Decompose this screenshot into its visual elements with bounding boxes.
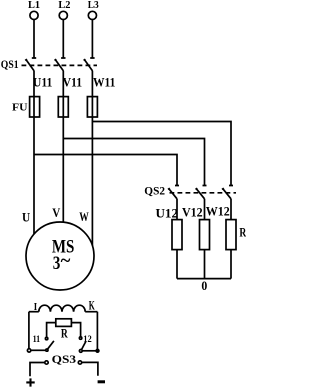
svg-text:R: R bbox=[61, 326, 69, 340]
svg-text:V: V bbox=[52, 206, 60, 220]
svg-text:QS1: QS1 bbox=[1, 58, 19, 71]
svg-text:QS2: QS2 bbox=[144, 186, 165, 198]
svg-text:I: I bbox=[34, 302, 37, 313]
svg-text:L3: L3 bbox=[88, 0, 99, 11]
svg-text:K: K bbox=[89, 299, 95, 313]
svg-text:V11: V11 bbox=[63, 75, 83, 89]
svg-text:W11: W11 bbox=[93, 75, 115, 89]
svg-text:W: W bbox=[79, 210, 89, 224]
svg-text:U: U bbox=[22, 211, 30, 225]
svg-text:L1: L1 bbox=[28, 0, 40, 11]
svg-text:V12: V12 bbox=[182, 206, 203, 220]
svg-text:L2: L2 bbox=[58, 0, 71, 11]
svg-text:11: 11 bbox=[33, 334, 41, 345]
svg-text:QS3: QS3 bbox=[52, 353, 77, 366]
svg-text:R: R bbox=[239, 226, 246, 240]
svg-text:~: ~ bbox=[61, 252, 71, 272]
svg-text:FU: FU bbox=[12, 102, 28, 114]
svg-text:U12: U12 bbox=[156, 207, 179, 221]
svg-text:W12: W12 bbox=[206, 204, 230, 218]
svg-text:U11: U11 bbox=[33, 75, 53, 89]
svg-text:0: 0 bbox=[201, 279, 207, 293]
svg-text:12: 12 bbox=[83, 334, 92, 345]
svg-text:3: 3 bbox=[53, 254, 61, 274]
